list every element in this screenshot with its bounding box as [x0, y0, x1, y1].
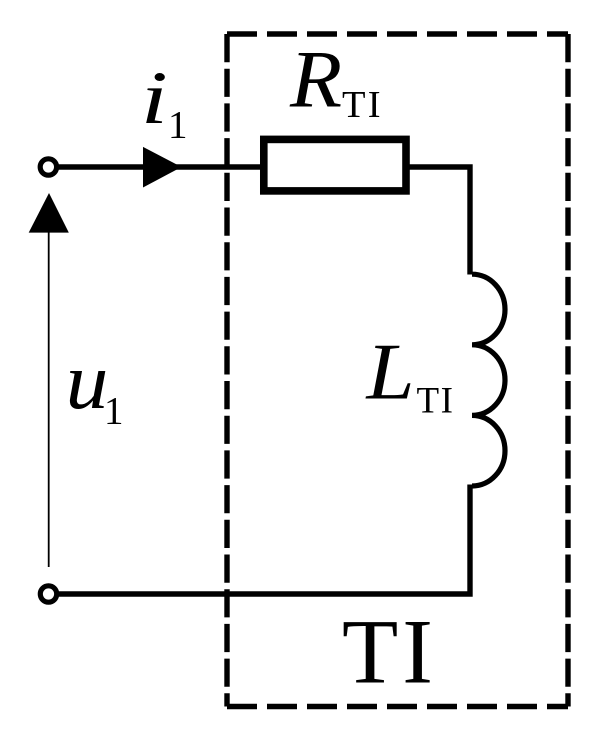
voltage arrow u1 : thin vertical line	[48, 231, 50, 567]
svg-text:i: i	[141, 56, 168, 140]
wire: below inductor down and bottom horizontal to terminal	[58, 485, 470, 595]
dashed box TI : left edge	[224, 34, 229, 707]
svg-text:u: u	[66, 337, 109, 426]
resistor R_TI body	[264, 139, 406, 191]
terminal node: top-left circle	[40, 159, 56, 175]
dashed box TI : top edge	[227, 31, 568, 36]
svg-text:1: 1	[168, 104, 188, 147]
svg-text:TI: TI	[342, 84, 383, 126]
dashed box TI : bottom edge	[227, 704, 568, 709]
wire: resistor right to corner and down to inductor	[408, 167, 470, 275]
voltage arrow u1 : arrowhead	[29, 193, 69, 233]
svg-text:R: R	[289, 34, 342, 125]
svg-text:TI: TI	[417, 381, 455, 422]
wire: top horizontal from terminal to resistor	[58, 164, 263, 169]
svg-text:L: L	[365, 329, 414, 417]
current arrow i1 on top wire	[143, 147, 182, 188]
svg-text:1: 1	[104, 390, 124, 433]
inductor L_TI : three semicircular arcs	[472, 274, 505, 486]
dashed box TI : right edge	[565, 34, 570, 707]
terminal node: bottom-left circle	[40, 586, 56, 602]
svg-text:TI: TI	[342, 601, 437, 703]
